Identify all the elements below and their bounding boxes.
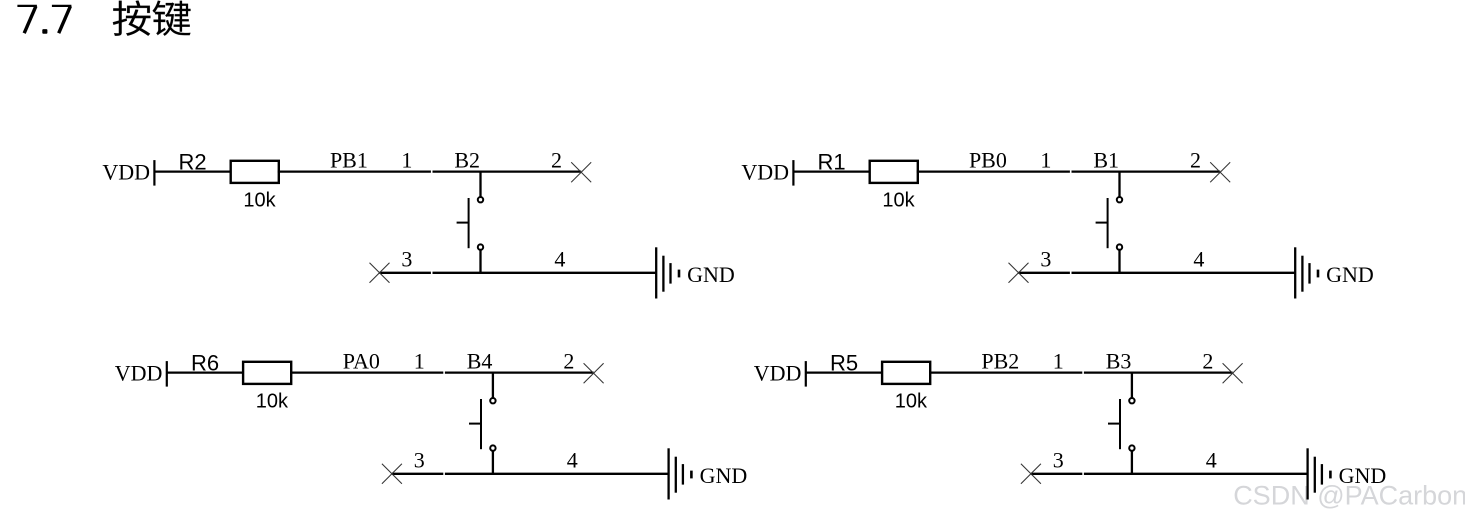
- button B1 actuator tick: [1096, 222, 1108, 224]
- resistor R2 body: [231, 161, 279, 183]
- no-connect cross on pin 3: [382, 464, 402, 484]
- wire resistor to no-connect, net PB2: [929, 371, 1082, 373]
- svg-text:R2: R2: [179, 149, 207, 174]
- svg-text:4: 4: [1206, 447, 1217, 472]
- svg-text:10k: 10k: [882, 189, 915, 211]
- wire button B3 bottom contact to ground rail: [1131, 451, 1133, 475]
- svg-text:VDD: VDD: [741, 160, 789, 185]
- button B2 actuator bar: [468, 198, 470, 248]
- wire resistor to no-connect, net PB0: [917, 170, 1070, 172]
- svg-text:GND: GND: [1339, 463, 1387, 488]
- VDD pin bar (circuit 1): [153, 160, 155, 186]
- button B1 top contact circle: [1117, 197, 1122, 202]
- button B4 bottom contact circle: [490, 445, 495, 450]
- svg-text:B4: B4: [467, 349, 493, 374]
- wire VDD to resistor R6: [167, 371, 244, 373]
- wire button B4 bottom contact to ground rail: [492, 451, 494, 475]
- resistor R5 body: [882, 362, 930, 384]
- wire button B1 bottom contact to ground rail: [1118, 250, 1120, 274]
- wire from net into button B2 top contact: [479, 171, 481, 197]
- svg-text:2: 2: [551, 148, 562, 173]
- svg-text:4: 4: [554, 246, 565, 271]
- svg-text:3: 3: [401, 246, 412, 271]
- wire VDD to resistor R5: [806, 371, 883, 373]
- section heading text 按: [113, 1, 150, 36]
- button B3 top contact circle: [1129, 398, 1134, 403]
- ground symbol (circuit 3): [667, 448, 669, 499]
- svg-text:4: 4: [1193, 246, 1204, 271]
- button B2 bottom contact circle: [478, 244, 483, 249]
- svg-text:10k: 10k: [256, 390, 289, 412]
- no-connect cross on pin 3: [1021, 464, 1041, 484]
- button B1 actuator bar: [1107, 198, 1109, 248]
- wire VDD to resistor R1: [793, 170, 870, 172]
- svg-text:PA0: PA0: [343, 349, 380, 374]
- svg-text:1: 1: [401, 148, 412, 173]
- wire VDD to resistor R2: [154, 170, 231, 172]
- svg-text:GND: GND: [687, 262, 735, 287]
- section heading text 键: [153, 1, 191, 36]
- no-connect cross on pin 3: [1009, 263, 1029, 283]
- svg-text:VDD: VDD: [102, 160, 150, 185]
- button B3 actuator bar: [1119, 399, 1121, 449]
- svg-text:1: 1: [1053, 349, 1064, 374]
- svg-text:1: 1: [1040, 148, 1051, 173]
- button B4 actuator tick: [469, 423, 481, 425]
- resistor R1 body: [870, 161, 918, 183]
- svg-text:4: 4: [567, 447, 578, 472]
- wire button B2 bottom contact to ground rail: [479, 250, 481, 274]
- svg-text:PB1: PB1: [330, 148, 368, 173]
- svg-text:B3: B3: [1106, 349, 1132, 374]
- svg-text:GND: GND: [700, 463, 748, 488]
- svg-text:3: 3: [414, 447, 425, 472]
- wire from net into button B3 top contact: [1131, 372, 1133, 398]
- button B2 actuator tick: [457, 222, 469, 224]
- VDD pin bar (circuit 3): [166, 361, 168, 387]
- ground symbol (circuit 1): [655, 247, 657, 298]
- button B2 top contact circle: [478, 197, 483, 202]
- ground rail wire (pins 3,4): [380, 272, 431, 274]
- no-connect cross on pin 2: [571, 162, 591, 182]
- no-connect cross on pin 2: [1223, 363, 1243, 383]
- svg-text:PB2: PB2: [981, 349, 1019, 374]
- wire resistor to no-connect, net PA0: [290, 371, 443, 373]
- svg-text:R6: R6: [191, 350, 219, 375]
- svg-text:2: 2: [1202, 349, 1213, 374]
- VDD pin bar (circuit 2): [792, 160, 794, 186]
- no-connect cross on pin 2: [584, 363, 604, 383]
- button B1 bottom contact circle: [1117, 244, 1122, 249]
- svg-text:B1: B1: [1093, 148, 1119, 173]
- wire from net into button B4 top contact: [492, 372, 494, 398]
- svg-text:GND: GND: [1326, 262, 1374, 287]
- ground symbol (circuit 4): [1306, 448, 1308, 499]
- button B4 actuator bar: [480, 399, 482, 449]
- no-connect cross on pin 3: [370, 263, 390, 283]
- wire resistor to no-connect, net PB1: [278, 170, 431, 172]
- svg-text:3: 3: [1053, 447, 1064, 472]
- svg-text:PB0: PB0: [969, 148, 1007, 173]
- resistor R6 body: [243, 362, 291, 384]
- button B4 top contact circle: [490, 398, 495, 403]
- svg-text:2: 2: [1190, 148, 1201, 173]
- ground rail wire (pins 3,4): [1019, 272, 1070, 274]
- VDD pin bar (circuit 4): [805, 361, 807, 387]
- svg-text:VDD: VDD: [754, 361, 802, 386]
- ground symbol (circuit 2): [1294, 247, 1296, 298]
- button B3 bottom contact circle: [1129, 445, 1134, 450]
- svg-text:B2: B2: [454, 148, 480, 173]
- svg-text:1: 1: [414, 349, 425, 374]
- svg-text:10k: 10k: [243, 189, 276, 211]
- svg-text:VDD: VDD: [115, 361, 163, 386]
- svg-text:R1: R1: [818, 149, 846, 174]
- wire from net into button B1 top contact: [1118, 171, 1120, 197]
- no-connect cross on pin 2: [1210, 162, 1230, 182]
- ground rail wire (pins 3,4): [1031, 473, 1082, 475]
- ground rail wire (pins 3,4): [392, 473, 443, 475]
- svg-text:R5: R5: [830, 350, 858, 375]
- svg-text:3: 3: [1040, 246, 1051, 271]
- button B3 actuator tick: [1108, 423, 1120, 425]
- svg-text:2: 2: [563, 349, 574, 374]
- section heading number 7.7: [17, 6, 71, 33]
- svg-text:10k: 10k: [895, 390, 928, 412]
